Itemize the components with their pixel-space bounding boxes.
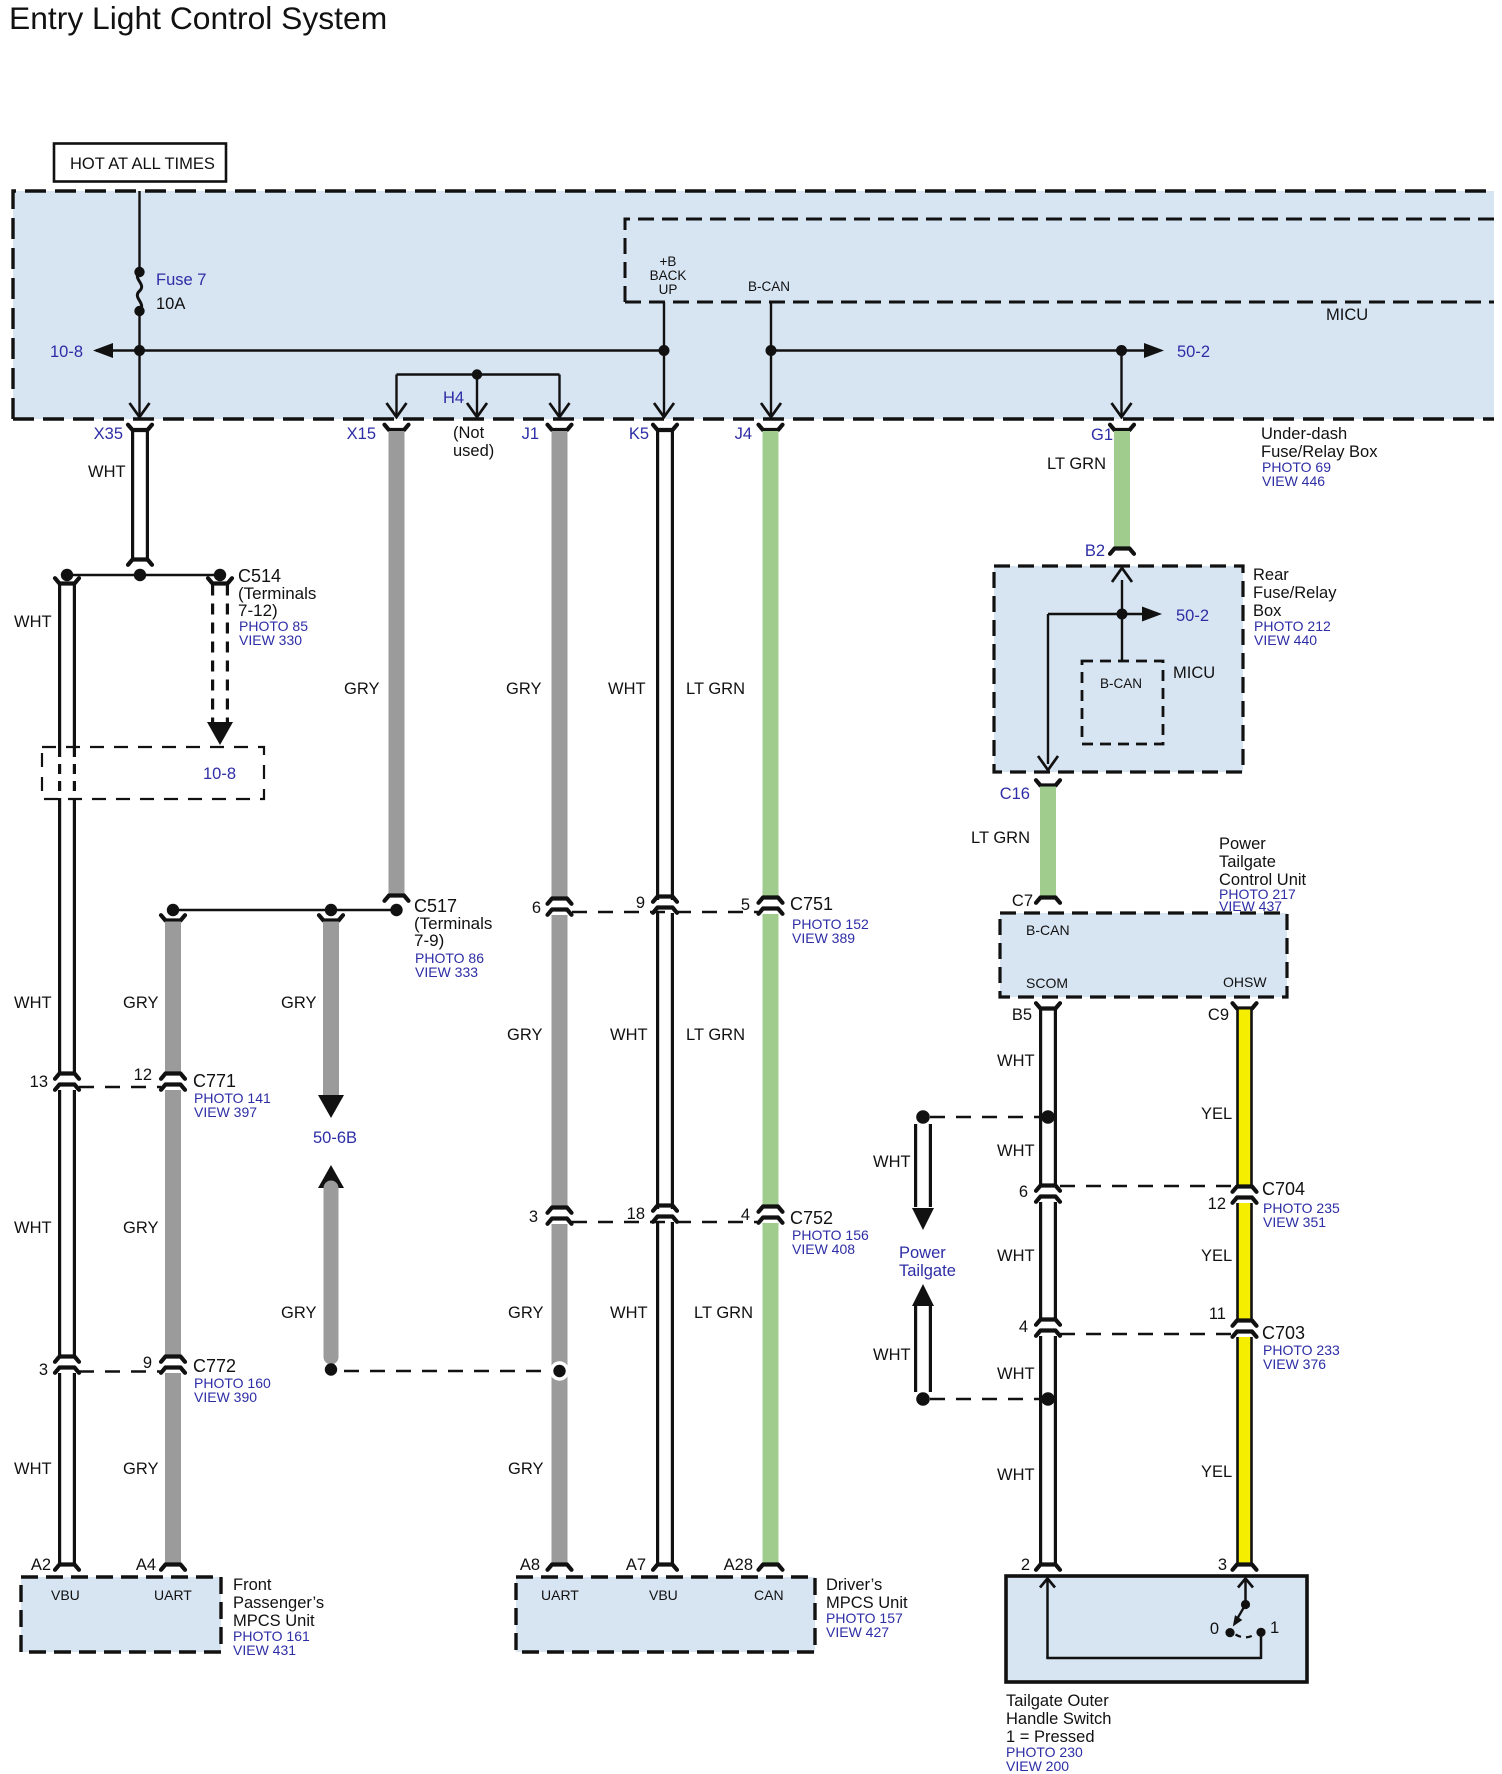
arrowhead PT up [912,1284,934,1306]
connector C752 pin18 [653,1206,677,1211]
connector C751 pin9 [653,897,677,902]
junction dot C517 left [167,904,179,916]
svg-text:GRY: GRY [123,994,158,1012]
Power Tailgate Control Unit box [1000,913,1287,997]
svg-text:9: 9 [636,894,645,912]
wire WHT left bottom [60,1373,75,1565]
svg-text:WHT: WHT [873,1153,911,1171]
MICU power box dashed border [13,191,1494,419]
svg-text:YEL: YEL [1201,1463,1232,1481]
svg-text:10-8: 10-8 [203,765,236,783]
svg-text:12: 12 [134,1066,152,1084]
svg-text:B2: B2 [1085,542,1105,560]
svg-text:B-CAN: B-CAN [748,279,790,294]
junction dot +B/10-8 [659,345,670,356]
svg-text:Under-dash: Under-dash [1261,425,1347,443]
svg-text:UART: UART [541,1587,579,1603]
rear box arrow down to C16 [1038,756,1058,770]
svg-text:SCOM: SCOM [1026,975,1068,991]
fuse F7 squiggle [137,272,141,311]
connector C704 pin12 [1233,1187,1257,1192]
svg-text:GRY: GRY [281,994,316,1012]
dashed link C771 [79,1086,161,1088]
svg-text:+B: +B [660,254,677,269]
svg-text:GRY: GRY [123,1460,158,1478]
svg-text:LT GRN: LT GRN [1047,455,1106,473]
svg-text:Power: Power [1219,835,1266,853]
svg-text:WHT: WHT [14,613,52,631]
svg-text:C7: C7 [1012,892,1033,910]
svg-text:Passenger’s: Passenger’s [233,1594,324,1612]
wire WHT left mid [60,799,75,1073]
svg-text:GRY: GRY [508,1304,543,1322]
svg-text:WHT: WHT [997,1247,1035,1265]
svg-text:GRY: GRY [507,1026,542,1044]
wire B-CAN drop [770,302,772,416]
dashed link C751 [572,911,758,913]
rear box junction dot [1117,609,1128,620]
svg-text:CAN: CAN [754,1587,784,1603]
wire G1 drop [1120,351,1122,417]
svg-text:WHT: WHT [14,1460,52,1478]
svg-text:VIEW 390: VIEW 390 [194,1389,257,1405]
wire 50-2 feed [771,349,1160,351]
arrow into G1 [1112,403,1132,417]
dashed link PT upper [930,1116,1041,1118]
svg-text:A28: A28 [724,1556,753,1574]
wire J1 GRY mid [552,915,568,1207]
connector X15 end cap [385,896,409,901]
svg-text:HOT AT ALL TIMES: HOT AT ALL TIMES [70,155,215,173]
rear box arrow up to B2 [1112,568,1132,582]
junction dot G1/50-2 [1116,345,1127,356]
wire C16 LT GRN [1040,787,1056,899]
svg-text:YEL: YEL [1201,1247,1232,1265]
svg-text:VIEW 440: VIEW 440 [1254,632,1317,648]
arrowhead PT down [912,1208,934,1230]
svg-text:3: 3 [529,1208,538,1226]
svg-text:MICU: MICU [1173,664,1215,682]
wire J4 LT GRN mid [763,914,779,1208]
junction dot B-CAN/50-2 [766,345,777,356]
svg-text:4: 4 [1019,1318,1028,1336]
svg-text:0: 0 [1210,1620,1219,1638]
junction dot B5 upper [1041,1110,1055,1124]
svg-text:LT GRN: LT GRN [686,680,745,698]
svg-text:C16: C16 [1000,785,1030,803]
svg-text:VBU: VBU [649,1587,678,1603]
junction dot left [61,569,73,581]
Tailgate switch box [1006,1576,1307,1682]
connector A8 end cap [548,1565,572,1570]
wire K5 WHT upper [658,431,673,900]
wire GRY UART upper [165,922,181,1074]
svg-text:6: 6 [1019,1183,1028,1201]
svg-text:B-CAN: B-CAN [1026,922,1070,938]
wire WHT left upper [60,585,75,748]
svg-text:WHT: WHT [997,1365,1035,1383]
svg-text:OHSW: OHSW [1223,974,1267,990]
svg-text:Power: Power [899,1244,946,1262]
wire X15 GRY [389,431,405,896]
Front Passenger MPCS box [21,1577,221,1652]
wire WHT left lower [60,1090,75,1356]
arrow into K5 [654,403,674,417]
wire B5 WHT mid [1041,1202,1056,1319]
connector C752 pin3 [548,1208,572,1213]
svg-text:6: 6 [532,899,541,917]
svg-text:LT GRN: LT GRN [694,1304,753,1322]
wire fuse feed [138,191,140,416]
svg-text:11: 11 [1209,1305,1226,1323]
svg-text:5: 5 [741,896,750,914]
svg-text:K5: K5 [629,425,649,443]
arrowhead 50-6B down [318,1095,344,1118]
wire K5 WHT mid [658,913,673,1209]
wire C9 YEL upper [1239,1010,1251,1187]
svg-text:WHT: WHT [997,1466,1035,1484]
connector C752 pin4 [759,1207,783,1212]
svg-text:9: 9 [143,1354,152,1372]
svg-text:C517: C517 [414,896,457,916]
switch pivot dot [1241,1600,1250,1609]
arrowhead 10-8 [93,343,113,358]
junction dot on J1 wire [550,1361,569,1380]
connector C771 pin12 [161,1074,185,1079]
connector J1 cap [548,425,572,430]
svg-text:BACK: BACK [650,268,687,283]
svg-text:GRY: GRY [508,1460,543,1478]
svg-text:Fuse/Relay: Fuse/Relay [1253,584,1337,602]
wire C9 YEL lower [1239,1337,1251,1565]
connector C703 pin11 [1233,1321,1257,1326]
connector J4 cap [759,425,783,430]
fuse bottom junction dot [134,306,144,316]
svg-text:WHT: WHT [608,680,646,698]
rear box 50-2 branch [1048,614,1158,764]
svg-text:B5: B5 [1012,1006,1032,1024]
connector X35 cap [128,425,152,430]
svg-text:A7: A7 [626,1556,646,1574]
svg-text:WHT: WHT [873,1346,911,1364]
junction dot 50-6B stub [325,1363,337,1375]
junction dot mid [134,569,146,581]
switch pin3 riser [1238,1579,1253,1588]
switch contact 0 dot [1225,1628,1234,1637]
wire C9 YEL mid [1239,1203,1251,1320]
connector switch pin2 end cap [1036,1565,1060,1570]
svg-text:X35: X35 [94,425,123,443]
connector switch pin3 end cap [1233,1565,1257,1570]
svg-text:J4: J4 [735,425,752,443]
wire H4 bar [397,375,560,417]
connector X35 wire end cap [128,560,152,565]
connector C704 pin6 [1036,1186,1060,1191]
dashed link C752 [572,1221,758,1223]
connector C771 pin13 [55,1074,79,1079]
connector A28 end cap [759,1565,783,1570]
wire GRY UART mid [165,1090,181,1356]
connector B5 cap [1036,1003,1060,1008]
rear inner B-CAN box [1082,661,1163,744]
wire +B BACK UP drop [663,302,665,416]
arrow into J4 [761,403,781,417]
svg-text:G1: G1 [1091,426,1113,444]
connector C751 pin5 [759,898,783,903]
connector cap UART start [161,915,185,920]
svg-text:VIEW 389: VIEW 389 [792,930,855,946]
connector B2 end cap [1110,549,1134,554]
svg-text:C703: C703 [1262,1323,1305,1343]
svg-text:C9: C9 [1208,1006,1229,1024]
svg-text:Front: Front [233,1576,272,1594]
switch pin2 riser [1040,1579,1055,1588]
svg-text:50-2: 50-2 [1176,607,1209,625]
Rear Fuse/Relay Box [994,566,1243,772]
svg-text:VIEW 446: VIEW 446 [1262,473,1325,489]
svg-text:12: 12 [1208,1195,1226,1213]
svg-text:X15: X15 [347,425,376,443]
connector X15 cap [385,425,409,430]
connector G1 cap [1110,425,1134,430]
svg-text:2: 2 [1021,1556,1030,1574]
svg-text:WHT: WHT [610,1304,648,1322]
connector C16 cap [1036,780,1060,785]
connector C7 end cap [1036,898,1060,903]
svg-text:VIEW 200: VIEW 200 [1006,1758,1069,1774]
svg-text:A8: A8 [520,1556,540,1574]
connector C772 pin3 [55,1357,79,1362]
svg-text:VIEW 330: VIEW 330 [239,632,302,648]
wire G1 LT GRN [1114,431,1130,549]
svg-text:50-2: 50-2 [1177,343,1210,361]
dashed link C704 [1060,1185,1232,1187]
svg-text:Tailgate Outer: Tailgate Outer [1006,1692,1109,1710]
svg-text:B-CAN: B-CAN [1100,676,1142,691]
connector A2 end cap [55,1565,79,1570]
dashed link C703 [1060,1333,1232,1335]
svg-text:18: 18 [627,1205,645,1223]
wire C514 (dashed) [213,585,228,723]
svg-text:Handle Switch: Handle Switch [1006,1710,1111,1728]
svg-text:A4: A4 [136,1556,156,1574]
junction dot H4 [472,369,482,379]
svg-text:UART: UART [154,1587,192,1603]
svg-text:J1: J1 [522,425,539,443]
svg-text:Tailgate: Tailgate [1219,853,1276,871]
wire PT lower stub [916,1306,931,1392]
svg-text:A2: A2 [31,1556,51,1574]
connector cap left wire start [55,578,79,583]
svg-text:LT GRN: LT GRN [686,1026,745,1044]
wire WHT left in 10-8 box [60,747,75,799]
wire 10-8 feed [96,349,664,351]
switch lever [1237,1605,1246,1621]
svg-text:VIEW 437: VIEW 437 [1219,898,1282,914]
svg-text:4: 4 [741,1206,750,1224]
svg-text:YEL: YEL [1201,1105,1232,1123]
wire J1 GRY lower [552,1224,568,1565]
MICU power box fill [13,191,1494,419]
connector C514 start cap [208,578,232,583]
arrow into X15 [387,403,407,417]
svg-text:used): used) [453,442,494,460]
connector A7 end cap [653,1565,677,1570]
wire B5 WHT lower [1041,1336,1056,1565]
svg-text:Rear: Rear [1253,566,1289,584]
svg-text:Entry Light Control System: Entry Light Control System [9,0,387,36]
svg-text:10-8: 10-8 [50,343,83,361]
arrowhead 50-2 (rear) [1142,607,1162,622]
svg-text:H4: H4 [443,389,464,407]
svg-text:50-6B: 50-6B [313,1129,357,1147]
svg-text:Fuse 7: Fuse 7 [156,271,206,289]
wire X35 WHT [133,431,148,560]
svg-text:VIEW 397: VIEW 397 [194,1104,257,1120]
svg-text:WHT: WHT [14,994,52,1012]
svg-text:GRY: GRY [506,680,541,698]
svg-text:C752: C752 [790,1208,833,1228]
connector K5 cap [653,425,677,430]
svg-text:C514: C514 [238,566,281,586]
arrowhead C514 [207,722,233,745]
MICU inner dashed box [625,219,1494,302]
svg-text:GRY: GRY [281,1304,316,1322]
svg-text:VIEW 333: VIEW 333 [415,964,478,980]
svg-text:VIEW 427: VIEW 427 [826,1624,889,1640]
wire J4 LT GRN lower [763,1223,779,1565]
svg-text:C704: C704 [1262,1179,1305,1199]
connector C9 cap [1233,1003,1257,1008]
connector A4 end cap [161,1565,185,1570]
arrow into X35 [130,403,150,417]
junction dot PT upper [916,1110,930,1124]
wire PT upper stub [916,1124,931,1207]
svg-text:C771: C771 [193,1071,236,1091]
svg-text:LT GRN: LT GRN [971,829,1030,847]
wire K5 WHT lower [658,1222,673,1565]
svg-text:MICU: MICU [1326,306,1368,324]
junction dot C517 right [390,904,402,916]
wire junction tee [67,574,220,576]
svg-text:(Not: (Not [453,424,485,442]
10-8 destination box [42,747,264,799]
svg-text:GRY: GRY [344,680,379,698]
svg-text:10A: 10A [156,295,185,313]
junction dot B5 lower [1041,1392,1055,1406]
svg-text:7-9): 7-9) [414,931,444,950]
svg-text:Tailgate: Tailgate [899,1262,956,1280]
Driver MPCS box [516,1577,815,1652]
switch bottom run [1046,1634,1261,1659]
svg-text:VBU: VBU [51,1587,80,1603]
svg-text:Driver’s: Driver’s [826,1576,882,1594]
connector C751 pin6 [548,899,572,904]
connector C703 pin4 [1036,1320,1060,1325]
svg-text:WHT: WHT [610,1026,648,1044]
connector C772 pin9 [161,1357,185,1362]
arrow into J1 [550,403,570,417]
switch contact 1 dot [1256,1628,1265,1637]
wire GRY 50-6B lower [324,1188,339,1357]
svg-text:C772: C772 [193,1356,236,1376]
svg-text:WHT: WHT [14,1219,52,1237]
svg-text:GRY: GRY [123,1219,158,1237]
dashed link C772 [79,1370,161,1372]
svg-text:WHT: WHT [997,1052,1035,1070]
svg-text:VIEW 431: VIEW 431 [233,1642,296,1658]
wire GRY UART bottom [165,1373,181,1565]
wire GRY 50-6B upper [323,922,339,1098]
HOT AT ALL TIMES box [54,144,226,182]
junction dot C517 mid [325,904,337,916]
arrowhead 50-6B up [318,1165,344,1188]
svg-text:WHT: WHT [88,463,126,481]
arrow H4 center [467,403,487,417]
wire J1 GRY upper [552,431,568,898]
svg-text:13: 13 [30,1073,48,1091]
wire C517 tee [173,909,397,911]
fuse top junction dot [134,267,144,277]
svg-text:C751: C751 [790,894,833,914]
wire B5 WHT upper [1041,1010,1056,1186]
junction dot fuse/10-8 [134,345,145,356]
dashed link stub to J1 [344,1370,552,1372]
svg-text:1: 1 [1270,1619,1279,1637]
connector cap 50-6B upper start [319,915,343,920]
junction dot right (C514) [214,569,226,581]
arrowhead 50-2 [1144,343,1164,358]
svg-text:3: 3 [1218,1556,1227,1574]
wire J4 LT GRN upper [763,431,779,899]
svg-text:WHT: WHT [997,1142,1035,1160]
svg-text:3: 3 [39,1361,48,1379]
svg-text:UP: UP [659,282,678,297]
junction dot PT lower [916,1392,930,1406]
svg-text:VIEW 351: VIEW 351 [1263,1214,1326,1230]
switch dashed throw [1236,1634,1256,1637]
svg-text:VIEW 408: VIEW 408 [792,1241,855,1257]
svg-text:VIEW 376: VIEW 376 [1263,1356,1326,1372]
dashed link PT lower [930,1398,1041,1400]
